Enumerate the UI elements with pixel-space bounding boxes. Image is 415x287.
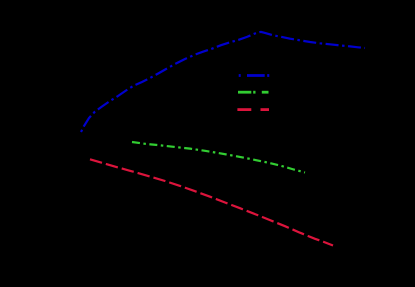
red curve (dashed) — [90, 159, 333, 245]
legend red sample — [237, 108, 269, 111]
green curve (dash-dot) — [132, 142, 305, 173]
legend green sample — [238, 91, 269, 94]
legend blue sample — [239, 74, 270, 77]
blue curve (dash-dot) — [81, 32, 365, 132]
